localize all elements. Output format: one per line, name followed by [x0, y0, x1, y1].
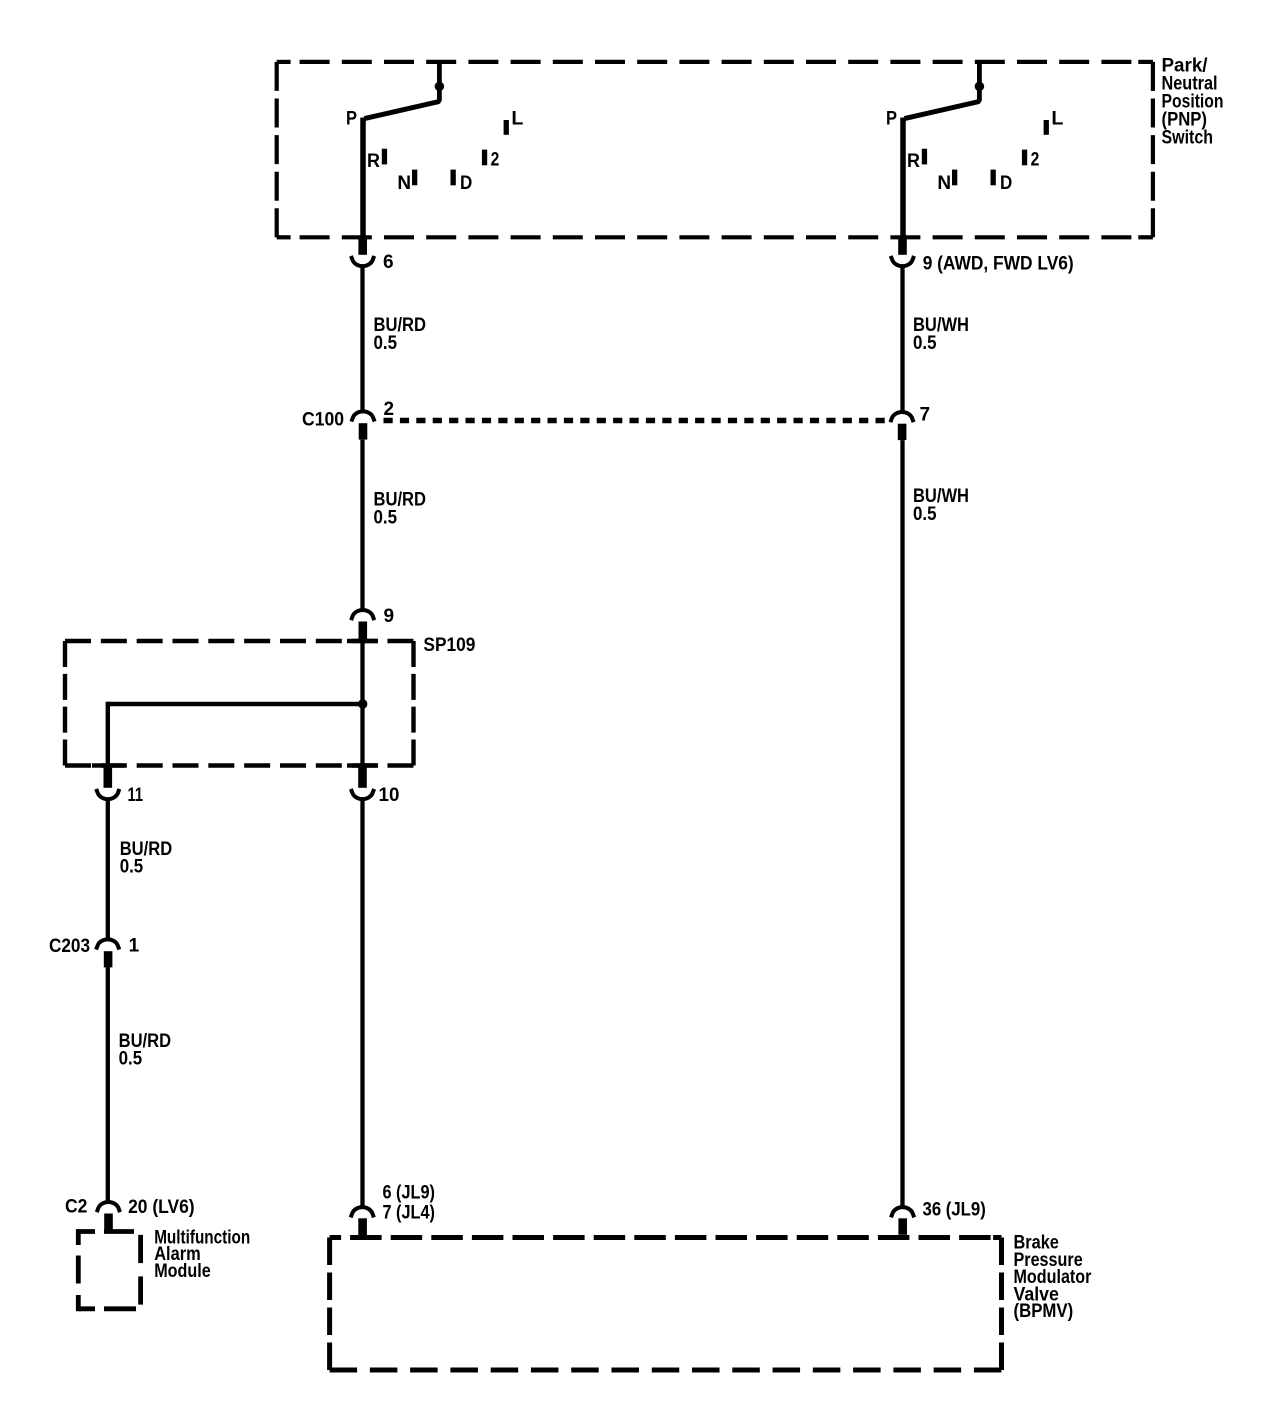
contact tick D (right switch) [991, 170, 996, 186]
connector socket C203 pin 1 [96, 939, 119, 949]
svg-text:D: D [1000, 173, 1012, 194]
switch wiper arm (right switch, P position) [904, 100, 979, 118]
connector socket C2 pin 20 (LV6) [97, 1202, 120, 1212]
dash bridge: SP109 top edge at pin 9 [347, 639, 378, 643]
Multifunction Alarm Module dashed box [78, 1229, 140, 1311]
connector socket C100 pin 7 [890, 412, 913, 422]
wire BU/RD from C100 pin 2 to splice SP109 pin 9 [360, 440, 364, 609]
connector socket C100 pin 2 [351, 411, 374, 421]
svg-text:R: R [907, 151, 920, 172]
pin 9 terminal blade (PNP switch) [898, 237, 907, 255]
svg-text:6: 6 [383, 252, 394, 273]
svg-text:0.5: 0.5 [374, 333, 398, 354]
svg-text:7 (JL4): 7 (JL4) [383, 1203, 435, 1224]
svg-text:C100: C100 [302, 410, 344, 431]
wire BU/RD from pin 11 to C203 pin 1 [106, 801, 110, 939]
Brake Pressure Modulator Valve (BPMV) dashed box [330, 1238, 1002, 1371]
contact tick N (left switch) [412, 170, 417, 186]
svg-text:36 (JL9): 36 (JL9) [923, 1200, 986, 1221]
contact tick 2 (right switch) [1022, 150, 1027, 166]
dotted in-line connector C100 mating line [384, 418, 893, 424]
svg-text:2: 2 [491, 149, 500, 170]
svg-text:L: L [1051, 108, 1063, 129]
pin 1 terminal blade (C203) [104, 951, 113, 967]
wire BU/RD from C203 pin 1 to C2 pin 20 [106, 967, 110, 1201]
pin 6 terminal blade (PNP switch) [358, 237, 367, 255]
svg-text:9: 9 [384, 606, 395, 627]
wire BU/WH from pin 9 to C100 pin 7 [900, 268, 904, 411]
svg-text:P: P [346, 108, 357, 129]
svg-text:(BPMV): (BPMV) [1014, 1301, 1074, 1322]
svg-text:N: N [397, 173, 411, 194]
wire: right switch P contact down to box edge [900, 118, 906, 238]
wire BU/WH from C100 pin 7 to BPMV pin 36 [900, 440, 904, 1205]
junction dot on left switch feed [435, 82, 445, 92]
wire inside SP109 (horizontal branch) [108, 702, 363, 706]
svg-text:7: 7 [920, 405, 931, 426]
svg-text:SP109: SP109 [423, 635, 475, 656]
pin 7 terminal blade (C100) [898, 424, 907, 440]
svg-text:P: P [886, 108, 897, 129]
pin 20 terminal blade (C2) [104, 1214, 113, 1230]
splice SP109 dashed box [65, 641, 414, 766]
svg-text:11: 11 [128, 785, 144, 806]
svg-text:10: 10 [379, 785, 400, 806]
Park/Neutral Position (PNP) Switch dashed box [277, 62, 1153, 237]
svg-text:N: N [937, 173, 951, 194]
svg-text:0.5: 0.5 [119, 1049, 143, 1070]
wire BU/RD from pin 6 to C100 pin 2 [360, 268, 364, 411]
pin 2 terminal blade (C100) [359, 423, 368, 439]
wire BU/RD from pin 10 to BPMV pin 6/7 [360, 801, 364, 1206]
pin 36 terminal blade (BPMV) [898, 1218, 907, 1235]
svg-text:1: 1 [129, 936, 140, 957]
connector socket BPMV pin 6 (JL9) / 7 (JL4) [351, 1207, 374, 1217]
contact tick R (right switch) [922, 149, 927, 165]
svg-text:2: 2 [384, 399, 395, 420]
contact tick R (left switch) [382, 149, 387, 165]
pin 11 terminal blade (SP109) [104, 766, 113, 788]
contact tick D (left switch) [451, 170, 456, 186]
svg-text:0.5: 0.5 [120, 857, 144, 878]
svg-text:9 (AWD, FWD LV6): 9 (AWD, FWD LV6) [923, 254, 1074, 275]
connector socket pin 10 [351, 789, 374, 799]
connector socket pin 6 [351, 256, 374, 266]
pin 10 terminal blade (SP109) [358, 766, 367, 788]
svg-text:20 (LV6): 20 (LV6) [128, 1197, 195, 1218]
wire: right switch feed from box top edge [977, 60, 982, 101]
svg-text:2: 2 [1031, 149, 1040, 170]
connector socket pin 9 into SP109 [351, 610, 374, 620]
svg-text:0.5: 0.5 [913, 504, 937, 525]
svg-text:L: L [511, 108, 523, 129]
svg-text:Module: Module [154, 1261, 211, 1282]
pin 6/7 terminal blade (BPMV) [358, 1218, 367, 1235]
wire: left switch P contact down to box edge [360, 118, 366, 238]
wire: left switch feed from box top edge [437, 60, 442, 101]
connector socket BPMV pin 36 (JL9) [891, 1207, 914, 1217]
svg-text:C203: C203 [49, 936, 90, 957]
wire inside SP109 (vertical) [360, 638, 364, 767]
contact tick 2 (left switch) [482, 150, 487, 166]
pin 9 terminal blade (SP109) [359, 622, 368, 641]
contact tick L (right switch) [1044, 120, 1049, 135]
svg-text:6 (JL9): 6 (JL9) [383, 1183, 435, 1204]
wire inside SP109 (left branch down) [106, 702, 110, 767]
dash bridge: SP109 bottom edge at pin 11 [92, 763, 124, 767]
svg-text:0.5: 0.5 [374, 508, 398, 529]
connector socket pin 11 [96, 789, 119, 799]
contact tick L (left switch) [504, 120, 509, 135]
svg-text:D: D [460, 173, 472, 194]
svg-text:R: R [367, 151, 380, 172]
connector socket pin 9 (AWD, FWD LV6) [891, 256, 914, 266]
svg-text:C2: C2 [65, 1197, 87, 1218]
contact tick N (right switch) [952, 170, 957, 186]
splice junction dot SP109 [358, 699, 367, 708]
svg-text:0.5: 0.5 [913, 333, 937, 354]
svg-text:Switch: Switch [1162, 128, 1214, 149]
dash bridge: SP109 bottom edge at pin 10 [347, 763, 378, 767]
switch wiper arm (left switch, P position) [364, 100, 439, 118]
junction dot on right switch feed [975, 82, 985, 92]
